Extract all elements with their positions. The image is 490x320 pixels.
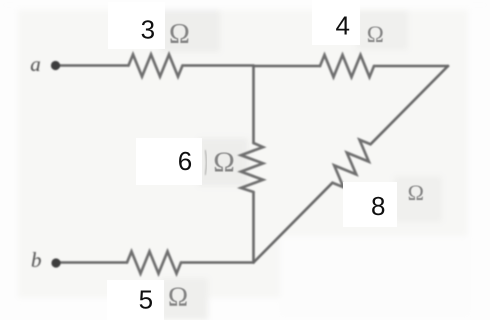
- resistor R3 6ohm: [241, 143, 263, 192]
- svg-text:Ω: Ω: [408, 180, 424, 205]
- svg-text:4: 4: [335, 11, 349, 41]
- svg-text:6: 6: [178, 146, 192, 176]
- resistor R4 8ohm: [333, 140, 371, 187]
- svg-text:Ω: Ω: [168, 281, 188, 311]
- wire R2 to corner D: [374, 65, 448, 68]
- scan artifact near 6: [205, 150, 207, 175]
- svg-text:Ω: Ω: [367, 22, 384, 47]
- terminal dot a: [51, 61, 60, 70]
- resistor R5 5ohm: [127, 252, 181, 274]
- svg-text:5: 5: [139, 284, 153, 314]
- wire a to R1: [56, 64, 129, 67]
- svg-text:Ω: Ω: [213, 147, 235, 179]
- wire R4 to corner D (diagonal upper leg): [371, 66, 449, 144]
- white patch behind label 4: [312, 0, 360, 45]
- white patch behind label 8: [343, 182, 397, 227]
- wire node C down to R3: [252, 66, 255, 144]
- white patch behind label 5: [107, 280, 164, 320]
- resistor R2 4ohm: [320, 55, 374, 77]
- terminal dot b: [51, 258, 60, 267]
- wire node C to R2: [254, 65, 321, 68]
- white patch behind label 6: [136, 138, 202, 185]
- svg-text:b: b: [31, 248, 42, 272]
- white patch behind label 3: [108, 2, 165, 49]
- wire node E to R4 (diagonal lower leg): [254, 183, 333, 263]
- wire R3 to node E: [252, 192, 255, 263]
- svg-text:Ω: Ω: [169, 19, 190, 50]
- wire R5 to node E: [181, 261, 254, 264]
- wire b to R5: [57, 261, 127, 264]
- svg-text:3: 3: [141, 15, 155, 45]
- svg-text:a: a: [30, 52, 41, 76]
- resistor R1 3ohm: [129, 55, 183, 77]
- wire R1 to node C: [183, 64, 254, 67]
- svg-text:8: 8: [371, 191, 385, 221]
